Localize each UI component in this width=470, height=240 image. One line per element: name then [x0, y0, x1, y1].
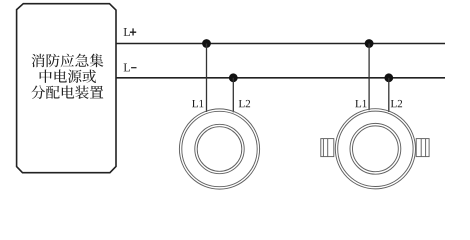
wire: L1 drop to luminaire 2	[368, 44, 370, 111]
wire: L+ bus	[116, 43, 445, 45]
junction dot: L+ tap to luminaire 1	[202, 39, 211, 48]
luminaire 1 inner ring (double line)	[195, 124, 244, 173]
luminaire 2 right mounting clip	[416, 139, 429, 157]
junction dot: L- tap to luminaire 2	[384, 73, 393, 82]
label L+	[124, 28, 130, 36]
box text line 3: 分配电装置	[31, 85, 103, 99]
label L-	[124, 64, 130, 72]
wire: L2 drop to luminaire 1	[232, 78, 234, 113]
box text line 2: 中电源或	[40, 70, 96, 83]
label L1 (luminaire 1)	[192, 100, 203, 107]
label L2 (luminaire 1)	[239, 100, 250, 107]
junction dot: L- tap to luminaire 1	[229, 73, 238, 82]
luminaire 2 left mounting clip	[321, 139, 334, 157]
luminaire 2 outer ring (double line)	[335, 109, 415, 189]
box text line 1: 消防应急集	[31, 54, 103, 68]
label L2 (luminaire 2)	[391, 100, 402, 107]
label L1 (luminaire 2)	[355, 100, 366, 107]
luminaire 2 inner ring (double line)	[350, 123, 401, 174]
junction dot: L+ tap to luminaire 2	[365, 39, 374, 48]
luminaire 1 outer ring (double line)	[179, 109, 259, 189]
wire: L- bus	[116, 77, 445, 79]
wire: L2 drop to luminaire 2	[388, 78, 390, 112]
wire: L1 drop to luminaire 1	[206, 44, 208, 113]
power supply box (fire emergency centralized power supply / distribution unit)	[17, 4, 116, 173]
